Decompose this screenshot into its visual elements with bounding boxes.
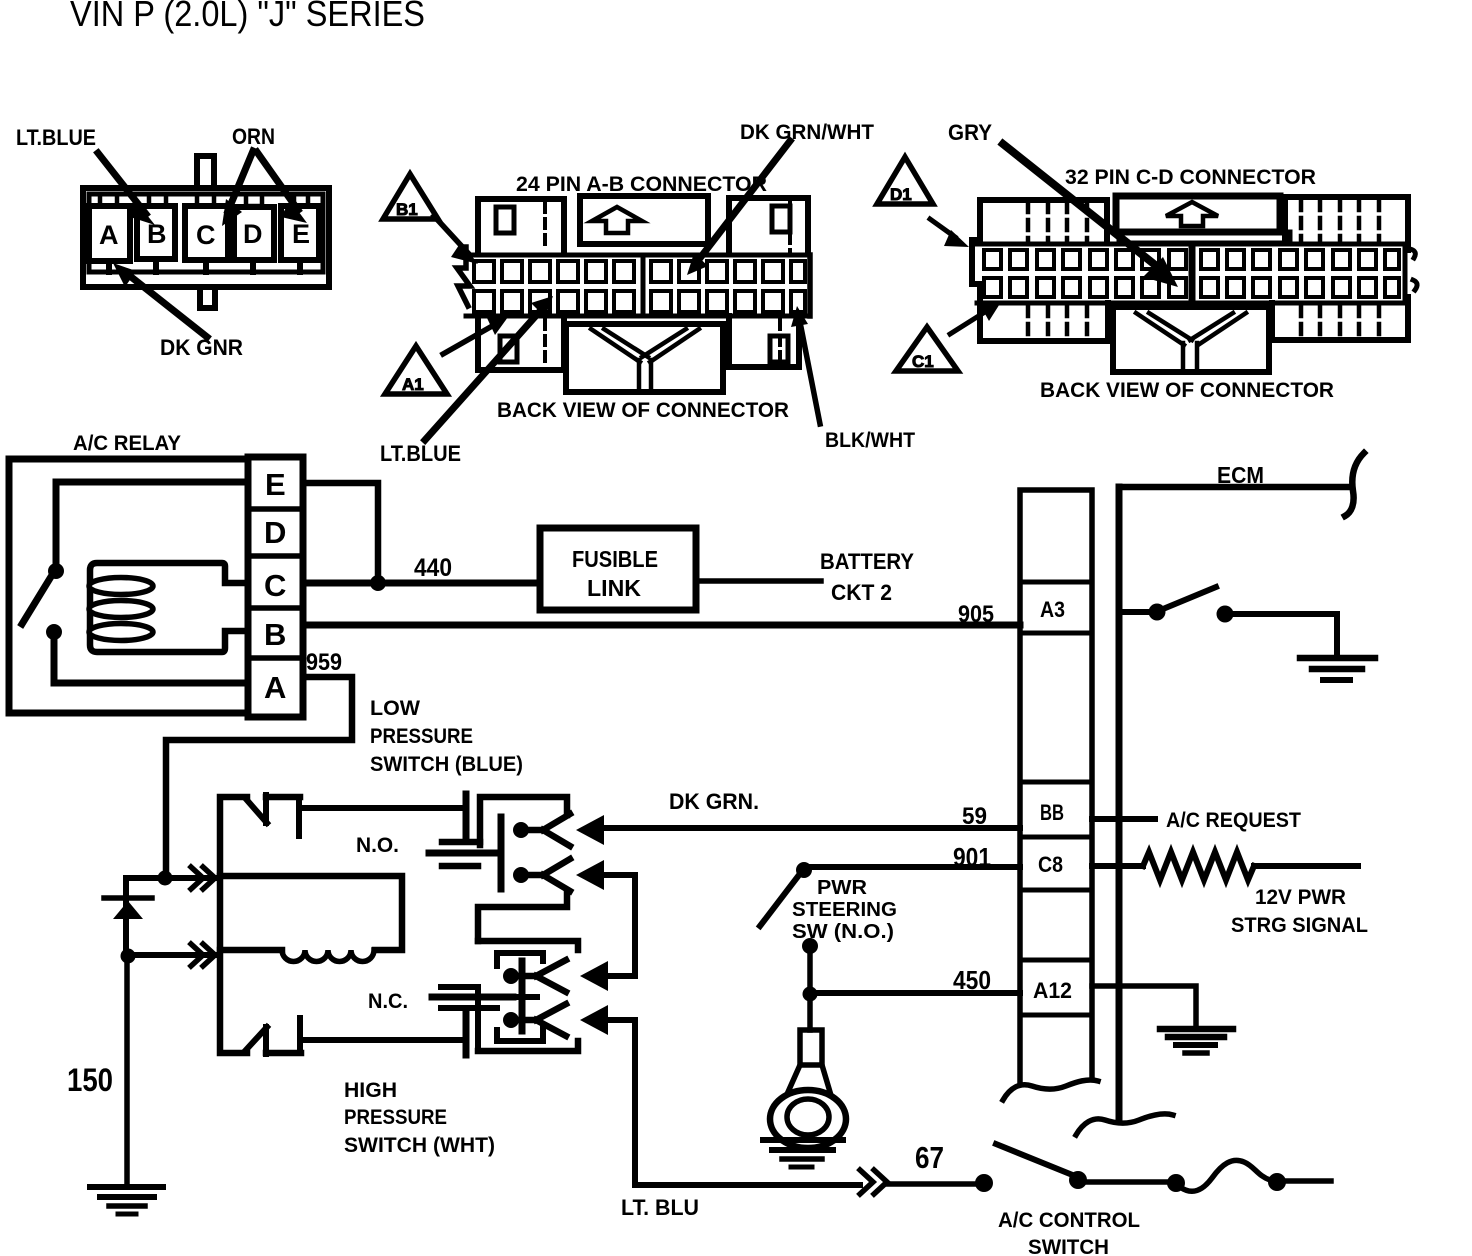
svg-text:LT. BLU: LT. BLU [621, 1195, 699, 1220]
label 959 [306, 649, 342, 676]
N.O. contact plate bar [463, 794, 470, 840]
wire 959 junction to low pressure switch [126, 875, 218, 881]
leader arrow ORN to pin C [222, 151, 253, 226]
pwr steering switch lower dot [802, 938, 818, 954]
female contact dot 1 (N.C.) [503, 968, 519, 984]
connector 24-pin top-right block [729, 198, 808, 253]
wire ECM to break [1119, 487, 1350, 490]
wire break squiggle (ECM) [1345, 453, 1364, 516]
label GRY [948, 120, 992, 145]
leader arrow LT.BLUE to pin B [98, 153, 155, 225]
svg-text:DK GRN.: DK GRN. [669, 789, 759, 814]
wire 901 pwr steering to C8 [808, 864, 1020, 870]
pin label E [292, 219, 310, 249]
wire 959 from relay A down-left [166, 677, 352, 875]
leader arrow B1 to connector [434, 216, 478, 264]
wavy break at ECM strip bottom [1003, 1080, 1098, 1100]
leader arrow DK GRN/WHT to pin [687, 141, 790, 275]
wire resistor to right [1254, 863, 1358, 869]
label 12V PWR STRG SIGNAL [1231, 886, 1368, 937]
svg-text:N.C.: N.C. [368, 990, 408, 1013]
connector 24-pin top-center box with arrow [580, 196, 708, 244]
svg-text:SWITCH (BLUE): SWITCH (BLUE) [370, 753, 523, 776]
label FUSIBLE LINK [572, 546, 658, 601]
wire 440 to fusible link [303, 580, 540, 587]
relay switch lever [22, 575, 52, 624]
stub wire A12 to ground [1092, 986, 1196, 1028]
pin label C [196, 220, 216, 250]
label N.C. [368, 990, 408, 1013]
stub wire C8 to resistor [1092, 863, 1143, 869]
label BACK VIEW OF CONNECTOR (32-pin) [1040, 379, 1334, 402]
svg-text:BB: BB [1040, 800, 1064, 825]
wire A3 switch to ground [1229, 614, 1337, 655]
wire pwr steering to ring terminal [807, 946, 813, 1030]
svg-text:STRG SIGNAL: STRG SIGNAL [1231, 914, 1368, 937]
low pressure switch body outline [220, 795, 301, 1054]
A/C control switch dot 1 [975, 1174, 993, 1192]
connector 24-pin pin row B [474, 291, 805, 312]
svg-text:A: A [99, 220, 119, 250]
svg-text:DK GNR: DK GNR [160, 335, 243, 360]
ground symbol (ring terminal) [763, 1140, 843, 1167]
label A/C RELAY [73, 432, 181, 455]
connector 32-pin pin row C [984, 250, 1399, 269]
ECM connector strip [1020, 490, 1092, 1083]
connector 32-pin pin band top line [977, 242, 1405, 247]
pin label D [243, 219, 263, 249]
N.C. lead upper [441, 984, 478, 990]
label 67 [915, 1140, 944, 1175]
svg-text:959: 959 [306, 649, 342, 676]
stub wire A3 to switch [1122, 609, 1152, 615]
label BATTERY CKT 2 [820, 549, 914, 605]
label ECM [1217, 462, 1264, 488]
svg-text:C: C [264, 568, 286, 603]
connector 32-pin lower-left striped section [980, 303, 1108, 341]
svg-text:GRY: GRY [948, 120, 992, 145]
relay terminal label D [264, 515, 286, 550]
wire 450 to ECM A12 [810, 990, 1020, 996]
label ORN [232, 124, 275, 149]
wire switch N.C. to contact plate [301, 1037, 461, 1043]
wire break squiggle (67) [1180, 1160, 1270, 1191]
male terminal arrow 2 (N.O.) [576, 860, 604, 890]
connector C100 top tab [197, 156, 214, 188]
N.O. outer bracket [480, 797, 567, 845]
svg-text:440: 440 [414, 554, 452, 582]
wire switch to break dot [1084, 1179, 1170, 1185]
callout triangle A1 [385, 346, 447, 394]
relay terminal label C [264, 568, 286, 603]
svg-text:PRESSURE: PRESSURE [370, 725, 473, 748]
wire 59 / DK GRN to ECM BB [596, 825, 1020, 831]
label 450 [953, 965, 991, 995]
N.C. lead lower [441, 1005, 497, 1011]
junction dot 959/diode [158, 871, 173, 886]
pin label A3 [1040, 597, 1065, 622]
svg-text:BACK VIEW OF CONNECTOR: BACK VIEW OF CONNECTOR [497, 399, 789, 422]
callout triangle C1 [896, 327, 958, 371]
svg-text:PWR: PWR [817, 877, 868, 899]
label LT. BLU [621, 1195, 699, 1220]
A3 switch pivot dot [1149, 604, 1166, 621]
connector C100 bottom tab [200, 287, 215, 308]
N.O. bracket lead upper [442, 839, 480, 846]
ring terminal crimp [800, 1030, 822, 1065]
svg-text:D: D [243, 219, 263, 249]
connector 32-pin center divider [1191, 244, 1196, 303]
connector 32-pin pin row D [984, 278, 1399, 297]
svg-text:32 PIN C-D CONNECTOR: 32 PIN C-D CONNECTOR [1065, 166, 1316, 189]
svg-text:VIN P (2.0L) "J" SERIES: VIN P (2.0L) "J" SERIES [70, 0, 425, 34]
ring terminal funnel [788, 1065, 830, 1092]
label 24 PIN A-B CONNECTOR [516, 173, 767, 196]
svg-text:A3: A3 [1040, 597, 1065, 622]
A/C control switch lever [996, 1144, 1075, 1176]
svg-text:BATTERY: BATTERY [820, 549, 914, 574]
diode cathode bar [104, 895, 152, 901]
wire from relay E to junction [303, 483, 378, 580]
junction dot wire 440 [370, 575, 386, 591]
svg-text:D: D [264, 515, 286, 550]
break dot right [1268, 1173, 1286, 1191]
label DK GRN. [669, 789, 759, 814]
relay switch pivot dot [48, 563, 64, 579]
svg-text:LT.BLUE: LT.BLUE [380, 441, 461, 466]
connector 24-pin funnel box [566, 324, 723, 392]
connector 24-pin pin band top line [466, 253, 810, 258]
label DK GNR [160, 335, 243, 360]
svg-text:BLK/WHT: BLK/WHT [825, 429, 915, 452]
female contact dot 2 (N.O.) [513, 867, 529, 883]
label A/C REQUEST [1166, 809, 1301, 832]
svg-text:A/C CONTROL: A/C CONTROL [998, 1209, 1140, 1232]
N.C. inner bottom bracket [497, 1028, 543, 1041]
callout triangle B1 [383, 174, 438, 219]
label LT.BLUE (24-pin) [380, 441, 461, 466]
female contact dot 1 (N.O.) [513, 822, 529, 838]
pin label C8 [1038, 852, 1063, 877]
leader arrow BLK/WHT to pin [791, 306, 820, 424]
connector 32-pin top-right striped section [1285, 197, 1408, 250]
wire 67 to A/C control switch [887, 1181, 976, 1187]
pwr steering switch lever [760, 875, 799, 926]
connector C100 5-pin outer shell [83, 188, 329, 287]
label BLK/WHT [825, 429, 915, 452]
female contact V 2 (N.O.) [525, 859, 570, 891]
svg-text:150: 150 [67, 1062, 113, 1098]
connector 24-pin center divider [641, 255, 646, 316]
male terminal arrow 1 (N.C.) [580, 961, 608, 991]
svg-text:A1: A1 [402, 375, 424, 394]
connector 24-pin left jagged edge [457, 247, 470, 306]
svg-text:LOW: LOW [370, 697, 420, 720]
female contact V 1 (N.C.) [517, 960, 566, 992]
male terminal arrow 1 (N.O.) / wire 59 start [576, 815, 604, 845]
svg-text:C1: C1 [912, 352, 934, 371]
A3 switch lever [1163, 587, 1216, 609]
resistor (12V pwr strg signal) [1143, 852, 1254, 880]
label LT.BLUE (5-pin connector) [16, 125, 96, 150]
svg-text:FUSIBLE: FUSIBLE [572, 546, 658, 572]
wire 905 relay B to ECM A3 [303, 622, 1020, 629]
svg-text:E: E [292, 219, 310, 249]
connector 24-pin pin band bottom line [466, 255, 810, 316]
A/C relay inner frame bottom (contact to A) [54, 635, 248, 683]
female contact V 2 (N.C.) [517, 1004, 566, 1036]
label A/C CONTROL SWITCH [998, 1209, 1140, 1256]
connector 32-pin top-center box with arrow [1116, 196, 1290, 243]
wire junction to low pressure switch (lower) [128, 952, 218, 958]
svg-text:LINK: LINK [587, 575, 641, 601]
relay terminal label B [264, 617, 286, 652]
wire switch N.O. to contact plate [301, 805, 464, 811]
svg-text:BACK VIEW OF CONNECTOR: BACK VIEW OF CONNECTOR [1040, 379, 1334, 402]
fusible link box [540, 528, 696, 610]
leader arrow ORN to pin E [257, 152, 307, 223]
svg-text:A/C REQUEST: A/C REQUEST [1166, 809, 1301, 832]
label DK GRN/WHT [740, 121, 874, 144]
pin label BB [1040, 800, 1064, 825]
svg-text:67: 67 [915, 1140, 944, 1175]
label BACK VIEW OF CONNECTOR (24-pin) [497, 399, 789, 422]
N.C. outer bottom bracket [478, 1041, 578, 1051]
terminal E [281, 194, 319, 272]
relay terminal strip [248, 457, 303, 717]
connector 24-pin pin row A [474, 261, 805, 282]
connector 32-pin bottom funnel box [1113, 243, 1269, 372]
label 32 PIN C-D CONNECTOR [1065, 166, 1316, 189]
relay switch contact dot [46, 624, 62, 640]
svg-text:PRESSURE: PRESSURE [344, 1106, 447, 1129]
ground symbol (A3 switch) [1300, 658, 1375, 680]
junction dot 450 [803, 987, 818, 1002]
connector 32-pin lower-right striped section [1272, 297, 1408, 340]
terminal B [137, 194, 175, 272]
N.O. channel bar [498, 817, 505, 889]
wavy break at ECM line bottom [1076, 1114, 1173, 1135]
title VIN P (2.0L) "J" SERIES [70, 0, 425, 34]
svg-text:D1: D1 [890, 185, 912, 204]
A3 switch contact dot [1217, 606, 1234, 623]
N.C. cross bar [513, 961, 537, 1031]
svg-text:HIGH: HIGH [344, 1079, 397, 1102]
svg-text:CKT 2: CKT 2 [831, 580, 892, 605]
ECM main vertical line [1116, 487, 1123, 1118]
N.O. bracket lead lower [442, 863, 478, 870]
wire 150 to ground [124, 956, 130, 1186]
low pressure switch coil box [220, 876, 402, 962]
leader arrow A1 to connector [443, 317, 508, 354]
svg-text:59: 59 [962, 803, 987, 830]
label 440 [414, 554, 452, 582]
N.O. lower bracket [478, 893, 567, 941]
terminal C [185, 194, 228, 272]
svg-text:ORN: ORN [232, 124, 275, 149]
label 150 [67, 1062, 113, 1098]
relay terminal label A [264, 670, 286, 705]
A/C relay outer box [9, 459, 248, 713]
svg-text:A: A [264, 670, 286, 705]
connector 24-pin lower-right block [729, 316, 799, 367]
A/C control switch dot 2 [1069, 1171, 1087, 1189]
wire N.C. lower contact down to LT.BLU run [606, 1020, 860, 1185]
A/C relay inner frame top (switch to E) [56, 482, 248, 568]
svg-text:SWITCH: SWITCH [1028, 1236, 1109, 1256]
pwr steering switch upper dot [796, 862, 812, 878]
pin label A12 [1033, 978, 1072, 1003]
male terminal arrow 2 (N.C.) [580, 1005, 608, 1035]
stub wire BB / A/C REQUEST [1092, 816, 1155, 822]
terminal D [234, 194, 274, 272]
svg-text:LT.BLUE: LT.BLUE [16, 125, 96, 150]
wire to right edge [1284, 1178, 1331, 1184]
svg-text:24 PIN A-B CONNECTOR: 24 PIN A-B CONNECTOR [516, 173, 767, 196]
wire N.O. lower contact to N.C. upper male [596, 875, 635, 976]
label 905 [958, 601, 994, 628]
svg-text:C: C [196, 220, 216, 250]
terminal A [89, 194, 130, 272]
relay coil loop 2 [89, 601, 153, 618]
N.C. inner top bracket [497, 953, 543, 966]
label HIGH PRESSURE SWITCH (WHT) [344, 1079, 495, 1157]
ground symbol (150) [90, 1187, 163, 1214]
leader arrow D1 to connector [930, 219, 969, 247]
svg-text:STEERING: STEERING [792, 899, 897, 921]
N.C. left vertical [475, 987, 481, 1051]
leader arrow GRY to pin [1003, 144, 1178, 287]
connector 24-pin top-left block [478, 199, 564, 253]
svg-text:12V PWR: 12V PWR [1255, 886, 1346, 909]
diode branch wire [123, 878, 129, 955]
label N.O. [356, 834, 399, 857]
svg-text:E: E [265, 467, 286, 502]
diode triangle [113, 901, 143, 919]
connector 32-pin pin band bottom line [977, 244, 1405, 303]
svg-text:C8: C8 [1038, 852, 1063, 877]
ground symbol (A12) [1160, 1029, 1233, 1053]
inline connector chevrons wire 67 [860, 1170, 887, 1194]
ring terminal ring [770, 1090, 846, 1148]
svg-text:N.O.: N.O. [356, 834, 399, 857]
svg-text:SWITCH (WHT): SWITCH (WHT) [344, 1134, 495, 1157]
junction dot diode/150 [121, 949, 136, 964]
N.C. outer top bracket [478, 941, 578, 950]
label LOW PRESSURE SWITCH (BLUE) [370, 697, 523, 776]
inline connector chevrons (upper) [191, 867, 215, 889]
svg-text:A12: A12 [1033, 978, 1072, 1003]
connector 32-pin top-left striped section [972, 200, 1107, 341]
svg-text:B: B [147, 219, 167, 249]
svg-text:B: B [264, 617, 286, 652]
leader arrow DK GNR to pin A stub [113, 263, 207, 337]
female contact V 1 (N.O.) [525, 814, 570, 846]
inline connector chevrons (lower) [191, 944, 215, 966]
female contact dot 2 (N.C.) [503, 1012, 519, 1028]
relay coil outline [90, 563, 248, 652]
svg-text:A/C RELAY: A/C RELAY [73, 432, 181, 455]
N.C. contact plate bar [463, 1011, 470, 1055]
label 901 [953, 842, 991, 872]
wire fusible link to battery [696, 578, 821, 584]
connector 32-pin right edge hooks [1410, 249, 1417, 290]
leader arrow C1 to connector [950, 302, 1001, 334]
break dot left [1167, 1174, 1185, 1192]
callout triangle D1 [877, 157, 933, 204]
svg-text:B1: B1 [396, 200, 418, 219]
relay coil loop 3 [89, 624, 153, 641]
pin label A [99, 220, 119, 250]
pin label B [147, 219, 167, 249]
relay coil loop 1 [89, 578, 153, 595]
svg-text:DK GRN/WHT: DK GRN/WHT [740, 121, 874, 144]
leader arrow LT.BLUE to pin [425, 296, 553, 440]
label 59 [962, 803, 987, 830]
N.C. gate lead [432, 994, 513, 1001]
relay terminal label E [265, 467, 286, 502]
N.O. gate lead [429, 850, 498, 857]
connector 24-pin lower-left block [478, 316, 564, 370]
label PWR STEERING SW (N.O.) [792, 877, 897, 943]
